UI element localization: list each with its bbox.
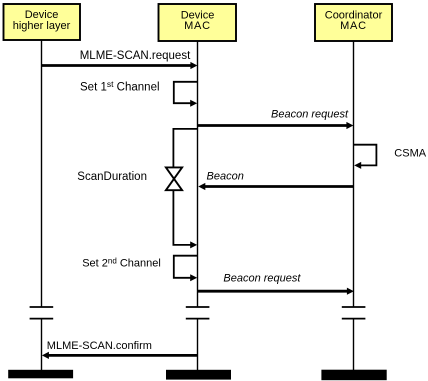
actor box: Coordinator MAC <box>315 4 392 41</box>
svg-text:CSMA: CSMA <box>394 148 426 160</box>
lifeline: Coordinator MAC (upper segment) <box>353 41 355 307</box>
timer bracket: ScanDuration (lower segment with arrow) <box>173 190 197 249</box>
timer bracket: ScanDuration (upper segment) <box>173 129 197 168</box>
lifeline break tick: Device higher layer lower <box>30 318 54 320</box>
svg-text:Beacon: Beacon <box>207 171 244 183</box>
svg-text:higher layer: higher layer <box>13 20 71 32</box>
message arrow: MLME-SCAN.confirm <box>42 340 198 359</box>
self message loop: Set 2nd Channel <box>82 256 197 282</box>
lifeline break tick: Device MAC upper <box>186 306 210 308</box>
lifeline break tick: Device MAC lower <box>186 318 210 320</box>
lifeline break tick: Device higher layer upper <box>30 306 54 308</box>
svg-text:MAC: MAC <box>340 20 367 32</box>
message arrow: Beacon request (first) <box>198 109 354 129</box>
message arrow: Beacon <box>198 171 353 191</box>
lifeline: Device higher layer (upper segment) <box>41 40 43 307</box>
svg-text:MLME-SCAN.request: MLME-SCAN.request <box>80 50 191 62</box>
actor box: Device MAC <box>159 4 237 41</box>
actor box: Device higher layer <box>4 4 81 40</box>
termination bar: Device higher layer <box>8 370 73 379</box>
termination bar: Device MAC <box>166 370 231 380</box>
svg-text:ScanDuration: ScanDuration <box>77 171 147 183</box>
svg-text:Set 2nd Channel: Set 2nd Channel <box>82 256 161 269</box>
lifeline: Device MAC (upper segment) <box>197 41 199 307</box>
lifeline: Device higher layer (lower segment) <box>41 319 43 371</box>
lifeline break tick: Coordinator MAC lower <box>342 318 366 320</box>
lifeline break tick: Coordinator MAC upper <box>342 306 366 308</box>
termination bar: Coordinator MAC <box>321 370 386 381</box>
svg-text:Set 1st Channel: Set 1st Channel <box>80 79 160 93</box>
svg-text:Beacon request: Beacon request <box>271 109 349 121</box>
message arrow: Beacon request (second) <box>198 273 354 295</box>
lifeline: Device MAC (lower segment) <box>197 319 199 371</box>
hourglass timer symbol <box>166 167 182 190</box>
svg-text:MAC: MAC <box>184 20 211 32</box>
self message loop: CSMA on Coordinator MAC <box>354 145 377 169</box>
svg-text:MLME-SCAN.confirm: MLME-SCAN.confirm <box>47 340 152 352</box>
message arrow: MLME-SCAN.request <box>42 50 198 69</box>
self message loop: Set 1st Channel <box>80 79 198 107</box>
lifeline: Coordinator MAC (lower segment) <box>353 319 355 371</box>
svg-text:Beacon request: Beacon request <box>223 273 301 285</box>
